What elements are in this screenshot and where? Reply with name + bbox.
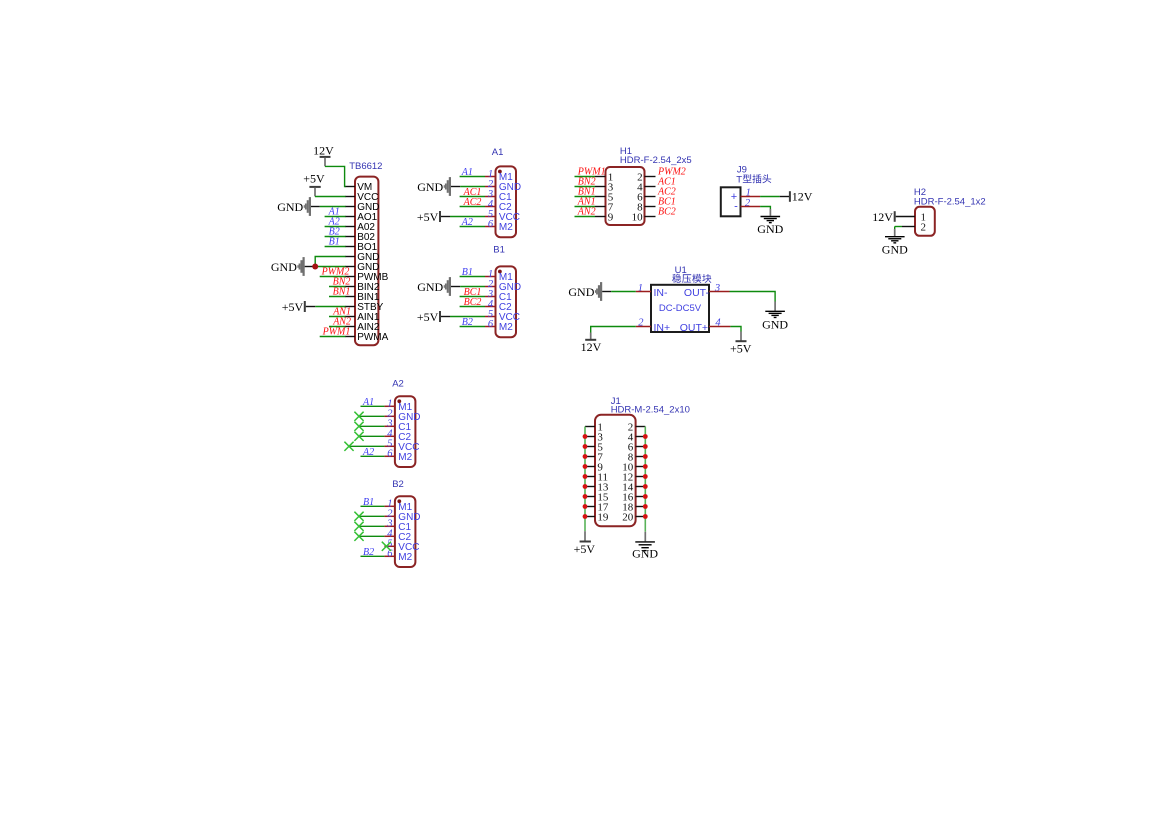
net label A2 bbox=[362, 447, 374, 458]
H1 right pin stubs (2,4,6,8,10) bbox=[645, 177, 656, 217]
svg-text:GND: GND bbox=[271, 260, 297, 274]
no-connect flag at A2 pin 4 bbox=[354, 432, 363, 441]
ground GND (earth) at U1 OUT- bbox=[762, 311, 788, 331]
connector B2 designator label bbox=[392, 479, 404, 490]
TB6612 pins (left stubs) bbox=[345, 187, 355, 337]
module U1 designator label bbox=[675, 265, 687, 276]
net label A2 bbox=[461, 217, 473, 228]
wire 12V to H2 pin1 bbox=[896, 216, 915, 218]
connector A1 body bbox=[496, 166, 517, 237]
wire (no connect) at B2 pin 2 bbox=[359, 515, 384, 517]
svg-text:GND: GND bbox=[277, 200, 303, 214]
ground GND (gray) at U1 IN- bbox=[568, 282, 602, 301]
svg-text:DC-DC5V: DC-DC5V bbox=[659, 303, 702, 314]
junction dot at GND net bbox=[312, 264, 318, 270]
wire net B2 to TB6612 bbox=[325, 236, 346, 238]
svg-text:B1: B1 bbox=[462, 267, 473, 278]
svg-text:-: - bbox=[734, 200, 738, 212]
svg-text:B1: B1 bbox=[329, 236, 340, 247]
connector B2 pin numbers bbox=[386, 499, 393, 560]
svg-text:12V: 12V bbox=[792, 190, 813, 204]
header H2 designator label bbox=[914, 187, 926, 198]
wire (no connect) at A2 pin 3 bbox=[359, 425, 384, 427]
wire +5V bus left of J1 bbox=[584, 427, 586, 541]
no-connect flag at B2 pin 2 bbox=[354, 512, 363, 521]
connector B1 pin stubs bbox=[485, 277, 496, 327]
wire GND symbol to TB6612 GND bbox=[311, 206, 346, 208]
power flag +5V at A1 pin 5 bbox=[417, 210, 440, 224]
connector B1 pin-1 marker dot bbox=[498, 270, 502, 274]
net label B1 bbox=[462, 267, 473, 278]
net label BN2 bbox=[578, 176, 596, 187]
svg-text:M2: M2 bbox=[398, 452, 412, 463]
connector A2 designator label bbox=[392, 379, 404, 390]
net label A2 bbox=[328, 216, 340, 227]
wire net BN2 to H1 bbox=[575, 186, 596, 188]
wire net A2 to A2 pin 6 bbox=[361, 455, 385, 457]
svg-text:+5V: +5V bbox=[730, 341, 752, 355]
wire GND to A1 pin 2 bbox=[451, 186, 485, 188]
wire GND bus right of J1 bbox=[644, 427, 646, 542]
connector A1 pin stubs bbox=[485, 177, 496, 227]
ground GND (earth) at H2 pin2 bbox=[882, 237, 908, 257]
J1 right pin stubs bbox=[636, 427, 646, 517]
header H1 body bbox=[606, 167, 645, 225]
connector A1 designator label bbox=[492, 147, 504, 158]
ground GND (gray) at B1 pin 2 bbox=[417, 277, 451, 296]
wire net A1 to A1 pin 1 bbox=[460, 176, 485, 178]
connector B2 body bbox=[395, 496, 416, 567]
junction dots on +5V bus bbox=[583, 434, 588, 519]
svg-text:A2: A2 bbox=[461, 217, 473, 228]
svg-text:M2: M2 bbox=[398, 552, 412, 563]
svg-text:PWM1: PWM1 bbox=[322, 326, 351, 337]
net label BC1 bbox=[464, 287, 482, 298]
svg-text:12V: 12V bbox=[581, 340, 602, 354]
net label AC1 bbox=[463, 187, 482, 198]
ground GND (earth) at J9 pin2 bbox=[757, 217, 783, 237]
connector A2 pin numbers bbox=[386, 399, 393, 460]
svg-text:6: 6 bbox=[488, 319, 494, 330]
connector B1 pin numbers bbox=[487, 269, 494, 330]
connector B1 designator label bbox=[493, 244, 505, 255]
svg-text:6: 6 bbox=[387, 449, 393, 460]
wire net AN1 to H1 bbox=[575, 206, 596, 208]
wire net B1 to B2 pin 1 bbox=[361, 505, 385, 507]
wire net PWM1 to H1 bbox=[575, 176, 596, 178]
no-connect flag at A2 pin 2 bbox=[354, 412, 363, 421]
ground GND (gray) at TB6612 pin GND bbox=[277, 197, 311, 216]
svg-text:+5V: +5V bbox=[282, 300, 304, 314]
net label AN1 bbox=[332, 306, 351, 317]
net label BC2 at H1 right bbox=[658, 206, 676, 217]
svg-text:IN+: IN+ bbox=[654, 322, 671, 334]
junction dots on GND bus bbox=[643, 434, 648, 519]
H1 left pin numbers bbox=[608, 171, 614, 223]
svg-text:OUT+: OUT+ bbox=[680, 322, 708, 334]
svg-text:2: 2 bbox=[921, 221, 927, 233]
svg-text:GND: GND bbox=[632, 547, 658, 561]
wire net B1 to TB6612 bbox=[325, 246, 346, 248]
net label AC2 at H1 right bbox=[657, 186, 676, 197]
svg-text:PWMA: PWMA bbox=[357, 332, 388, 343]
wire net BN1 to H1 bbox=[575, 196, 596, 198]
net label BN2 bbox=[333, 276, 351, 287]
U1 pin numbers bbox=[638, 283, 722, 329]
svg-text:GND: GND bbox=[568, 285, 594, 299]
wire J9 pin1 to 12V bbox=[760, 196, 789, 198]
power flag +5V at TB6612 STBY bbox=[282, 300, 305, 314]
net label B2 bbox=[329, 226, 340, 237]
svg-text:BC2: BC2 bbox=[464, 297, 482, 308]
svg-text:M2: M2 bbox=[499, 322, 513, 333]
net label AC1 at H1 right bbox=[657, 176, 676, 187]
wire net B2 to B1 pin 6 bbox=[460, 326, 485, 328]
net label BC2 bbox=[464, 297, 482, 308]
wire (no connect) at A2 pin 5 bbox=[349, 445, 384, 447]
power flag +5V at J1 bbox=[574, 542, 596, 556]
wire 12V to TB6612 VM (pin VM) bbox=[325, 166, 346, 186]
wire +5V to B1 pin 5 bbox=[441, 316, 485, 318]
svg-text:6: 6 bbox=[488, 219, 494, 230]
IC TB6612 body bbox=[355, 177, 378, 346]
H1 right pin numbers bbox=[632, 171, 644, 223]
net label B1 bbox=[363, 497, 374, 508]
connector A2 pin stubs bbox=[384, 406, 395, 456]
wire 12V to U1 pin2 bbox=[591, 327, 636, 340]
header H1 designator label bbox=[620, 146, 632, 157]
no-connect flag at B2 pin 4 bbox=[354, 532, 363, 541]
svg-text:GND: GND bbox=[417, 180, 443, 194]
svg-text:HDR-F-2.54_2x5: HDR-F-2.54_2x5 bbox=[620, 155, 692, 166]
svg-text:HDR-M-2.54_2x10: HDR-M-2.54_2x10 bbox=[611, 404, 690, 415]
J1 left pin numbers bbox=[597, 421, 609, 523]
power flag +5V at B1 pin 5 bbox=[417, 310, 440, 324]
U1 pin 3 stub bbox=[709, 291, 730, 293]
J9 pin numbers bbox=[745, 188, 751, 210]
wire J9 pin2 to GND bbox=[760, 207, 770, 216]
svg-text:A1: A1 bbox=[461, 167, 473, 178]
wire net PWM1 to TB6612 bbox=[320, 336, 346, 338]
header H2 body bbox=[915, 207, 935, 236]
svg-text:10: 10 bbox=[632, 211, 644, 223]
svg-text:B2: B2 bbox=[462, 317, 473, 328]
net label BN1 bbox=[578, 186, 596, 197]
wire (no connect) at A2 pin 4 bbox=[359, 435, 384, 437]
J9 pin 2 stub bbox=[741, 206, 761, 208]
ground GND (earth) at J1 bbox=[632, 542, 658, 561]
connector A2 pin-1 marker dot bbox=[397, 399, 401, 403]
net label BC1 at H1 right bbox=[658, 196, 676, 207]
connector B2 pin stubs bbox=[384, 506, 395, 556]
connector B2 pin-1 marker dot bbox=[397, 499, 401, 503]
header J1 designator label bbox=[611, 396, 621, 407]
no-connect flag at A2 pin 5 bbox=[344, 442, 353, 451]
wire GND to B1 pin 2 bbox=[451, 286, 485, 288]
wire net A1 to A2 pin 1 bbox=[361, 405, 385, 407]
no-connect flag at B2 pin 3 bbox=[354, 522, 363, 531]
net label B1 bbox=[329, 236, 340, 247]
H2 pin numbers bbox=[921, 211, 927, 233]
net label PWM2 bbox=[321, 266, 350, 277]
wire (no connect) at B2 pin 4 bbox=[359, 535, 384, 537]
connector J9 body bbox=[721, 187, 741, 216]
svg-text:B1: B1 bbox=[363, 497, 374, 508]
power flag 12V at H2 pin1 bbox=[872, 210, 894, 224]
module U1 name label 稳压模块 bbox=[672, 274, 711, 283]
wire +5V to TB6612 STBY bbox=[306, 306, 346, 308]
power flag 12V at J9 bbox=[790, 190, 813, 204]
net label AN2 bbox=[577, 206, 596, 217]
wire GND to U1 pin1 bbox=[602, 291, 636, 293]
J9 pin 1 stub bbox=[741, 196, 761, 198]
svg-text:TB6612: TB6612 bbox=[349, 161, 382, 172]
svg-text:B2: B2 bbox=[363, 547, 374, 558]
wire GND to TB6612 pin GND(9) bbox=[305, 266, 346, 268]
wire net BN1 to TB6612 bbox=[329, 296, 346, 298]
wire net AN2 to TB6612 bbox=[329, 326, 346, 328]
connector A2 body bbox=[395, 396, 416, 467]
U1 pin 1 stub bbox=[636, 291, 651, 293]
connector A2 pin names bbox=[398, 402, 420, 463]
connector B2 pin names bbox=[398, 502, 420, 563]
net label BN1 bbox=[333, 286, 351, 297]
IC TB6612 name label bbox=[349, 161, 382, 172]
net label AC2 bbox=[463, 197, 482, 208]
connector J9 name label T型插头 bbox=[736, 174, 771, 185]
U1 pin 4 stub bbox=[709, 326, 730, 328]
header J1 name label HDR-M-2.54_2x10 bbox=[611, 404, 690, 415]
svg-text:HDR-F-2.54_1x2: HDR-F-2.54_1x2 bbox=[914, 196, 986, 207]
module U1 body bbox=[651, 285, 709, 332]
header H2 name label HDR-F-2.54_1x2 bbox=[914, 196, 986, 207]
header J1 body bbox=[595, 415, 636, 527]
connector A1 pin-1 marker dot bbox=[498, 170, 502, 174]
power flag +5V at U1 OUT+ bbox=[730, 341, 752, 355]
svg-text:GND: GND bbox=[757, 222, 783, 236]
J1 left pin stubs bbox=[585, 427, 595, 517]
svg-text:M2: M2 bbox=[499, 222, 513, 233]
net label AN1 bbox=[577, 196, 596, 207]
svg-text:12V: 12V bbox=[872, 210, 893, 224]
wire (no connect) at A2 pin 2 bbox=[359, 415, 384, 417]
wire GND up to TB6612 pin GND(8) bbox=[315, 257, 345, 267]
net label PWM2 at H1 right bbox=[657, 166, 686, 177]
wire net BC1 to B1 pin 3 bbox=[460, 296, 485, 298]
net label A1 bbox=[362, 397, 374, 408]
svg-text:+5V: +5V bbox=[303, 172, 325, 186]
wire +5V to TB6612 VCC bbox=[315, 196, 346, 198]
wire net AC1 to A1 pin 3 bbox=[460, 196, 485, 198]
svg-text:9: 9 bbox=[608, 211, 614, 223]
wire net AC2 to A1 pin 4 bbox=[460, 206, 485, 208]
U1 pin 2 stub bbox=[636, 326, 651, 328]
U1 label DC-DC5V bbox=[659, 303, 702, 314]
power flag +5V (net +5V) bbox=[303, 172, 325, 197]
wire net AN2 to H1 bbox=[575, 216, 596, 218]
svg-text:T: T bbox=[736, 174, 742, 185]
net label B2 bbox=[462, 317, 473, 328]
svg-text:+5V: +5V bbox=[417, 210, 439, 224]
wire GND to H2 pin2 bbox=[895, 227, 915, 237]
connector A1 pin names bbox=[499, 172, 521, 233]
J1 right pin numbers bbox=[622, 421, 634, 523]
svg-text:AN2: AN2 bbox=[577, 206, 596, 217]
J9 plus mark bbox=[731, 191, 737, 203]
wire U1 pin4 to +5V bbox=[730, 327, 741, 341]
wire (no connect) at B2 pin 3 bbox=[359, 525, 384, 527]
wire net A1 to TB6612 bbox=[325, 216, 346, 218]
power flag 12V at U1 IN+ bbox=[581, 340, 602, 354]
J9 minus mark bbox=[734, 200, 738, 212]
svg-text:BN1: BN1 bbox=[333, 286, 351, 297]
svg-text:GND: GND bbox=[762, 317, 788, 331]
ground GND (gray) at A1 pin 2 bbox=[417, 177, 451, 196]
svg-text:12V: 12V bbox=[313, 144, 334, 158]
power flag 12V (net 12V) bbox=[313, 144, 334, 167]
svg-text:A2: A2 bbox=[392, 379, 404, 390]
wire net B2 to B2 pin 6 bbox=[361, 555, 385, 557]
H1 left pin stubs (1,3,5,7,9) bbox=[595, 177, 606, 217]
TB6612 pin names bbox=[357, 182, 388, 343]
wire net B1 to B1 pin 1 bbox=[460, 276, 485, 278]
wire net BC2 to B1 pin 4 bbox=[460, 306, 485, 308]
header H1 name label HDR-F-2.54_2x5 bbox=[620, 155, 692, 166]
connector B1 pin names bbox=[499, 272, 521, 333]
svg-text:A1: A1 bbox=[492, 147, 504, 158]
connector J9 designator label bbox=[737, 165, 747, 176]
net label B2 bbox=[363, 547, 374, 558]
wire net BN2 to TB6612 bbox=[329, 286, 346, 288]
svg-text:B1: B1 bbox=[493, 244, 505, 255]
svg-text:B2: B2 bbox=[392, 479, 404, 490]
svg-text:+5V: +5V bbox=[574, 542, 596, 556]
svg-text:OUT-: OUT- bbox=[684, 287, 710, 299]
no-connect flag at A2 pin 3 bbox=[354, 422, 363, 431]
svg-text:A2: A2 bbox=[362, 447, 374, 458]
wire net PWM2 to TB6612 bbox=[320, 276, 346, 278]
wire U1 pin3 to GND bbox=[730, 292, 776, 311]
svg-text:GND: GND bbox=[417, 280, 443, 294]
net label PWM1 bbox=[577, 166, 606, 177]
net label PWM1 bbox=[322, 326, 351, 337]
net label A1 bbox=[328, 206, 340, 217]
svg-text:A1: A1 bbox=[362, 397, 374, 408]
svg-text:BC2: BC2 bbox=[658, 206, 676, 217]
net label A1 bbox=[461, 167, 473, 178]
svg-text:+5V: +5V bbox=[417, 310, 439, 324]
svg-text:GND: GND bbox=[882, 242, 908, 256]
connector B1 body bbox=[496, 266, 517, 337]
net label AN2 bbox=[332, 316, 351, 327]
svg-text:IN-: IN- bbox=[654, 287, 669, 299]
wire net AN1 to TB6612 bbox=[329, 316, 346, 318]
no-connect flag at B2 pin 5 bbox=[382, 542, 391, 551]
svg-text:AC2: AC2 bbox=[463, 197, 482, 208]
svg-text:19: 19 bbox=[597, 511, 609, 523]
connector A1 pin numbers bbox=[487, 169, 494, 230]
ground GND (gray) at TB6612 GND pins 8/9 bbox=[271, 257, 305, 276]
wire net A2 to TB6612 bbox=[325, 226, 346, 228]
wire +5V to A1 pin 5 bbox=[441, 216, 485, 218]
svg-text:20: 20 bbox=[622, 511, 634, 523]
wire net A2 to A1 pin 6 bbox=[460, 226, 485, 228]
U1 pin names bbox=[654, 287, 710, 334]
svg-text:2: 2 bbox=[745, 198, 751, 209]
